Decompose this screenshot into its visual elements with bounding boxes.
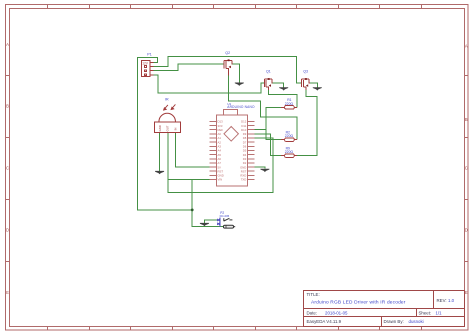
svg-text:Arduino RGB LED Driver with IR: Arduino RGB LED Driver with IR decoder: [311, 300, 406, 306]
transistor Q3: [302, 79, 311, 90]
svg-text:D: D: [6, 228, 9, 233]
ground Q2: [235, 83, 244, 86]
wire Q2 source to ground: [233, 64, 240, 82]
svg-text:TXD: TXD: [241, 178, 247, 182]
svg-text:E: E: [6, 290, 9, 295]
svg-text:P1: P1: [147, 53, 151, 57]
svg-text:DC-005: DC-005: [220, 214, 230, 218]
svg-text:12V: 12V: [142, 61, 149, 65]
wire junction riser to VIN line: [191, 180, 193, 210]
connector P1: [142, 60, 154, 76]
wire Q2 gate down and zigzag to R2 right: [229, 76, 298, 140]
svg-text:dusnoki: dusnoki: [409, 319, 424, 324]
wire R1 left to R2 left vertical: [266, 107, 281, 139]
wire Q3 drain to R9 right: [297, 90, 317, 156]
svg-text:A: A: [465, 44, 468, 49]
ground P2: [200, 223, 209, 226]
svg-text:GND: GND: [158, 125, 162, 131]
wire P1 pin3 to Q2 gate: [154, 64, 225, 71]
ground nano GND pin: [260, 169, 269, 172]
wire nano D9 to R9 left: [254, 134, 281, 156]
resistor R2 220 ohm: [281, 131, 297, 142]
IR receiver module: [159, 113, 176, 122]
nano left pin stubs: [210, 121, 217, 179]
wire Q1 drain to R1 right: [269, 90, 298, 108]
wire Q3 source to ground: [310, 83, 317, 88]
wire nano GND right to ground: [254, 167, 265, 169]
resistor R1 220 ohm: [281, 98, 297, 109]
wire P1 pin1 12V loop and left rail down to junction: [138, 57, 192, 210]
svg-text:C: C: [465, 166, 468, 171]
svg-text:VIN: VIN: [218, 178, 223, 182]
transistor Q2: [224, 61, 232, 76]
connector P2 DC-005: [217, 217, 220, 227]
IR incoming arrows: [164, 104, 176, 110]
svg-text:IN: IN: [173, 128, 177, 131]
ground Q1: [279, 87, 288, 90]
svg-text:220Ω: 220Ω: [285, 102, 294, 106]
svg-text:REV:: REV:: [437, 298, 447, 303]
svg-text:A: A: [6, 42, 9, 47]
nano right pin names: [240, 120, 247, 182]
wire Q1 source to ground: [273, 83, 284, 88]
nano left pin names: [218, 120, 224, 182]
svg-text:Drawn By:: Drawn By:: [384, 319, 404, 324]
wire nano 5V to IR IN: [175, 132, 209, 167]
svg-text:TITLE:: TITLE:: [307, 292, 320, 297]
wire IR GND down: [159, 132, 161, 171]
wire P1 pin4 to Q1 gate: [154, 75, 265, 93]
frame column ticks top: [48, 5, 422, 9]
svg-text:EasyEDA V4.11.9: EasyEDA V4.11.9: [307, 319, 342, 324]
wire P1 pin2 to Q3 gate: [154, 57, 302, 83]
svg-text:B: B: [465, 117, 468, 122]
transistor Q1: [264, 79, 272, 90]
svg-text:1.0: 1.0: [448, 298, 455, 303]
svg-text:Q2: Q2: [225, 51, 230, 55]
nano diamond mark: [224, 127, 238, 142]
wire nano D10: [254, 129, 266, 131]
svg-text:2018-01-05: 2018-01-05: [325, 310, 348, 315]
svg-text:Q1: Q1: [266, 69, 271, 73]
frame zone letters: [6, 42, 468, 295]
ground Q3: [313, 87, 322, 90]
svg-text:ARDUINO NANO: ARDUINO NANO: [227, 105, 255, 109]
resistor R9 220 ohm: [281, 147, 297, 158]
wire nano D8 to IR OUT: [168, 132, 273, 192]
nano right pin stubs: [247, 121, 254, 179]
svg-text:Q3: Q3: [303, 69, 308, 73]
junction node 12V: [191, 209, 194, 212]
svg-text:E: E: [465, 290, 468, 295]
frame column ticks bottom: [48, 327, 422, 331]
svg-text:C: C: [6, 166, 9, 171]
svg-text:220Ω: 220Ω: [285, 150, 294, 154]
op chip U1 Arduino Nano body: [217, 110, 248, 187]
svg-text:B: B: [6, 104, 9, 109]
frame row ticks sides: [6, 76, 469, 262]
svg-text:IR: IR: [165, 97, 169, 101]
svg-text:1/1: 1/1: [436, 310, 443, 315]
svg-text:220Ω: 220Ω: [285, 134, 294, 138]
svg-text:OUT: OUT: [166, 125, 170, 131]
ground IR GND: [155, 171, 164, 174]
svg-text:Sheet:: Sheet:: [419, 310, 432, 315]
svg-text:D: D: [465, 228, 468, 233]
wire P2 switch pin to ground: [204, 220, 217, 223]
wire nano VIN to 12V riser: [168, 179, 210, 181]
svg-text:Date:: Date:: [307, 310, 318, 315]
wire junction to P2 barrel (+12V): [192, 210, 223, 227]
